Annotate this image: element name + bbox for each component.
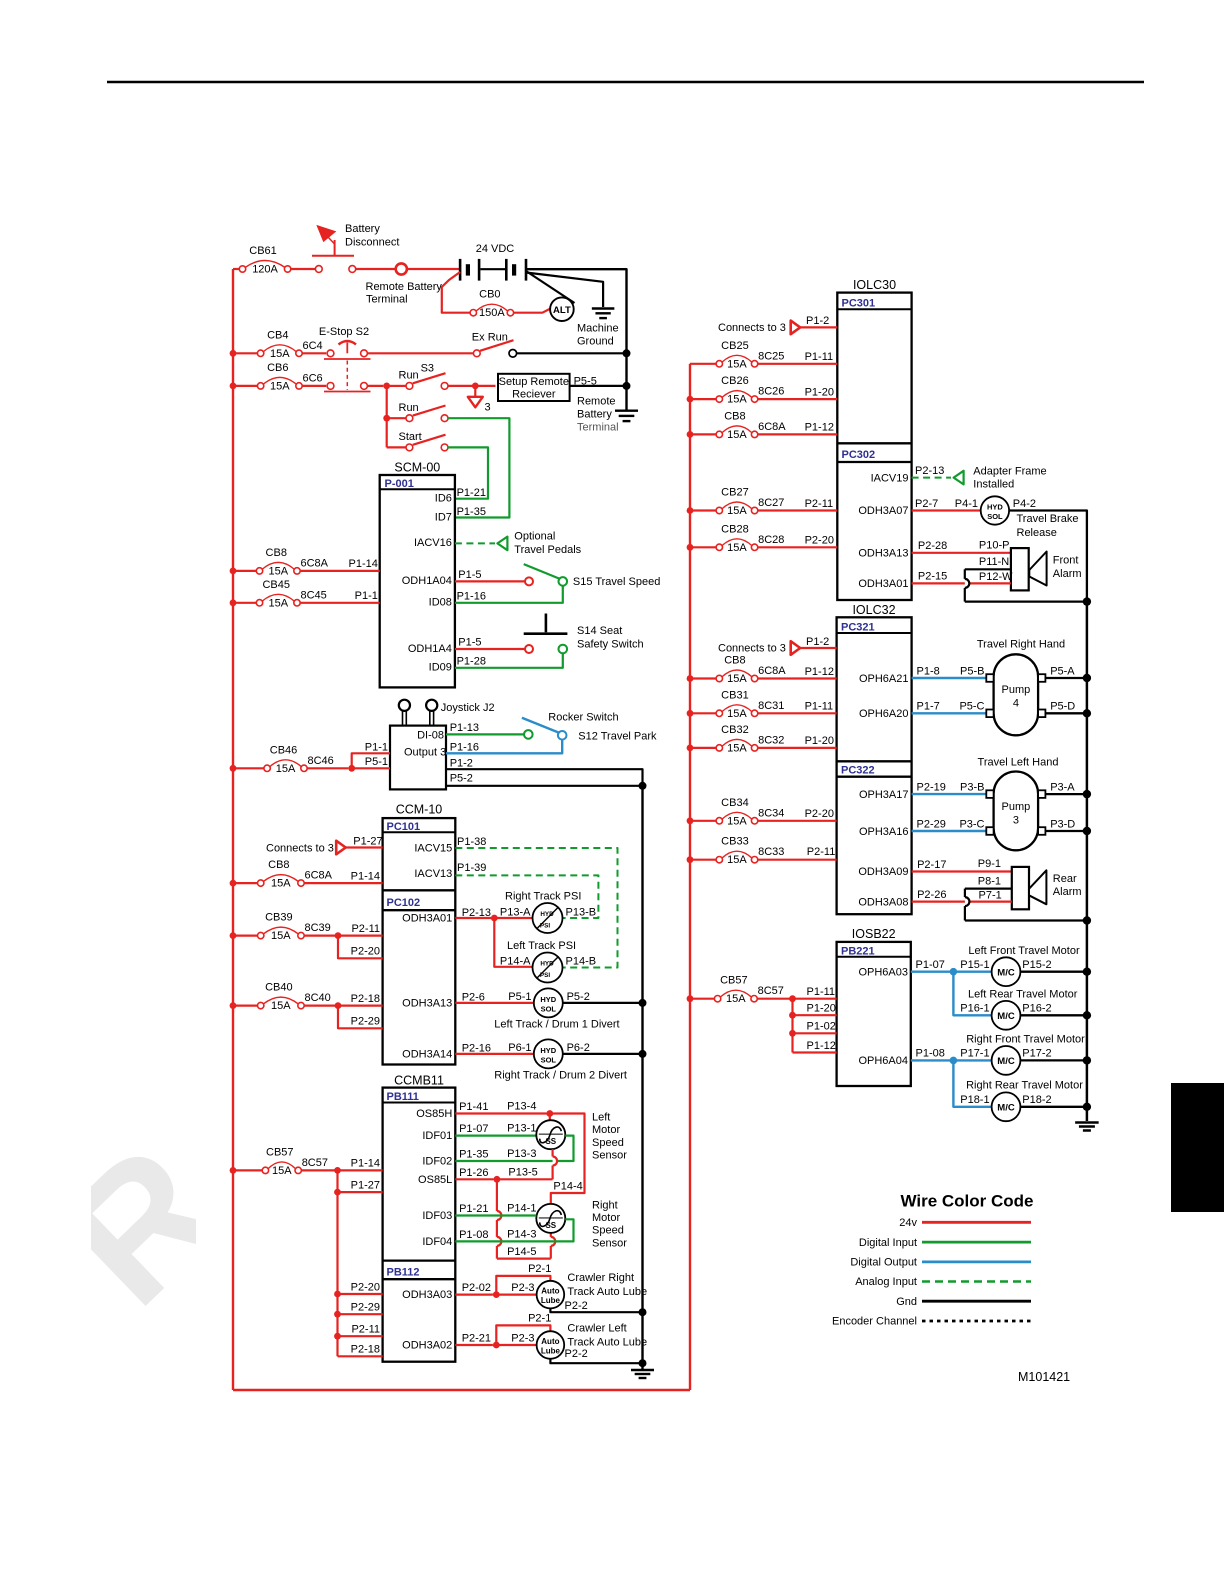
svg-text:Connects to 3: Connects to 3: [266, 843, 334, 855]
svg-text:150A: 150A: [479, 307, 505, 319]
node: [950, 1057, 958, 1065]
svg-text:ID08: ID08: [429, 597, 452, 609]
wire digital output branch: [953, 1060, 991, 1106]
wire: [1045, 677, 1087, 679]
node: [230, 932, 237, 939]
fuse CB33 15A: [716, 836, 784, 867]
wire ODH1A04: [455, 580, 525, 582]
svg-text:P2-28: P2-28: [918, 540, 947, 552]
fuse CB45 15A: [256, 579, 326, 610]
svg-text:Pump: Pump: [1002, 684, 1031, 696]
svg-text:P5-C: P5-C: [959, 701, 984, 713]
fuse CB32 15A: [716, 724, 784, 755]
svg-text:Battery: Battery: [577, 409, 612, 421]
svg-text:P5-B: P5-B: [960, 665, 984, 677]
wire: [352, 753, 390, 768]
svg-text:CB8: CB8: [266, 547, 287, 559]
node: [230, 1167, 237, 1174]
svg-text:CB8: CB8: [268, 859, 289, 871]
node: [1083, 674, 1091, 682]
svg-text:Travel Right Hand: Travel Right Hand: [977, 639, 1065, 651]
svg-text:CB46: CB46: [270, 744, 298, 756]
module IOLC32: [837, 603, 912, 914]
svg-text:P2-16: P2-16: [462, 1043, 491, 1055]
pump 3 travel left hand: [986, 772, 1045, 851]
wire: [526, 271, 575, 303]
svg-text:Analog Input: Analog Input: [855, 1276, 917, 1288]
pump 4 travel right hand: [986, 654, 1045, 735]
svg-text:P14-3: P14-3: [507, 1229, 536, 1241]
svg-text:15A: 15A: [271, 930, 291, 942]
svg-text:Wire Color Code: Wire Color Code: [900, 1192, 1033, 1211]
wire P8-1: [965, 887, 1012, 889]
wire: [690, 998, 714, 1000]
svg-text:OS85H: OS85H: [416, 1108, 452, 1120]
actuator crawler right track auto lube: [537, 1281, 565, 1309]
svg-text:8C40: 8C40: [305, 992, 331, 1004]
wire IACV15 analog dashed to P14-B: [455, 848, 617, 968]
svg-text:P2-15: P2-15: [918, 571, 947, 583]
svg-text:6C4: 6C4: [303, 340, 323, 352]
emergency stop switch S2 contact 1: [324, 341, 371, 359]
svg-text:P11-N: P11-N: [979, 556, 1009, 568]
svg-text:15A: 15A: [271, 878, 291, 890]
svg-text:P15-1: P15-1: [960, 959, 989, 971]
wire P5-2 gnd: [446, 785, 643, 787]
svg-text:P-001: P-001: [385, 478, 414, 490]
svg-text:P1-14: P1-14: [351, 870, 380, 882]
svg-text:P1-21: P1-21: [459, 1203, 488, 1215]
svg-text:CB57: CB57: [266, 1146, 294, 1158]
solenoid travel brake release: [981, 496, 1009, 524]
node: [335, 932, 342, 939]
fuse CB26 15A: [716, 375, 784, 406]
svg-text:P2-20: P2-20: [805, 535, 834, 547]
svg-text:P1-28: P1-28: [457, 655, 486, 667]
node: [789, 1030, 796, 1037]
svg-text:IACV13: IACV13: [414, 868, 452, 880]
svg-text:CB39: CB39: [265, 912, 293, 924]
fuse CB8 15A (IOLC32): [716, 655, 786, 686]
wire: [494, 918, 532, 967]
svg-text:ODH3A01: ODH3A01: [858, 578, 908, 590]
wire ODH3A03: [455, 1293, 493, 1295]
svg-text:P1-38: P1-38: [457, 836, 486, 848]
wire: [233, 268, 239, 270]
fuse CB40 15A: [258, 982, 331, 1013]
svg-text:P2-20: P2-20: [805, 808, 834, 820]
svg-text:Adapter Frame: Adapter Frame: [973, 465, 1046, 477]
svg-text:Front: Front: [1053, 555, 1079, 567]
svg-text:Installed: Installed: [973, 478, 1014, 490]
wire: [690, 677, 716, 679]
svg-text:Right Track PSI: Right Track PSI: [505, 891, 581, 903]
svg-text:Left Front Travel Motor: Left Front Travel Motor: [968, 945, 1080, 957]
svg-text:15A: 15A: [727, 394, 747, 406]
switch Start: [387, 435, 448, 451]
svg-text:8C27: 8C27: [758, 497, 784, 509]
ground machine ground: [592, 309, 615, 319]
node: [687, 507, 694, 514]
node: [348, 765, 355, 772]
svg-text:Alarm: Alarm: [1053, 886, 1082, 898]
svg-text:Safety Switch: Safety Switch: [577, 638, 644, 650]
wire: [793, 1014, 837, 1016]
actuator crawler left track auto lube: [537, 1331, 565, 1359]
svg-text:15A: 15A: [268, 597, 288, 609]
svg-text:S12 Travel Park: S12 Travel Park: [578, 731, 657, 743]
wire IACV19 analog: [912, 477, 951, 479]
svg-text:Terminal: Terminal: [366, 294, 408, 306]
svg-text:P7-1: P7-1: [979, 890, 1002, 902]
wire: [367, 385, 383, 387]
svg-text:PB111: PB111: [387, 1091, 419, 1103]
svg-text:IOSB22: IOSB22: [852, 927, 896, 941]
svg-text:Right Rear Travel Motor: Right Rear Travel Motor: [966, 1079, 1083, 1091]
node: [1083, 968, 1091, 976]
wire riser to right SS bottom: [551, 1233, 556, 1259]
svg-text:ODH3A09: ODH3A09: [858, 866, 908, 878]
svg-text:IACV19: IACV19: [871, 472, 909, 484]
wire: [793, 1032, 837, 1034]
svg-text:Rear: Rear: [1053, 873, 1077, 885]
svg-text:P1-5: P1-5: [458, 637, 481, 649]
node: [1083, 1103, 1091, 1111]
node: [687, 710, 694, 717]
svg-text:IDF03: IDF03: [422, 1210, 452, 1222]
node: [623, 382, 631, 390]
emergency stop switch S2 contact 2: [324, 361, 371, 392]
wire: [233, 352, 257, 354]
svg-text:PC301: PC301: [842, 298, 876, 310]
svg-text:IOLC32: IOLC32: [852, 603, 895, 617]
svg-text:8C28: 8C28: [758, 534, 784, 546]
node: [230, 383, 237, 390]
wire OPH3A17 P2-19 digital output: [912, 793, 987, 795]
wire ODH3A01: [455, 917, 491, 919]
svg-text:P13-A: P13-A: [500, 907, 531, 919]
svg-text:IACV15: IACV15: [414, 842, 452, 854]
wire: [526, 273, 603, 308]
sensor left motor speed SS: [536, 1120, 565, 1149]
wire: [517, 352, 627, 354]
svg-text:P1-27: P1-27: [353, 836, 382, 848]
svg-text:IOLC30: IOLC30: [853, 278, 896, 292]
node: [1083, 1056, 1091, 1064]
svg-text:Right Track / Drum 2 Divert: Right Track / Drum 2 Divert: [494, 1070, 627, 1082]
svg-text:6C8A: 6C8A: [305, 870, 333, 882]
svg-text:P18-2: P18-2: [1022, 1094, 1051, 1106]
connector triangle to sheet 3: [791, 321, 801, 335]
wire: [455, 1136, 573, 1161]
svg-text:CB4: CB4: [267, 329, 288, 341]
svg-text:Travel Pedals: Travel Pedals: [514, 544, 581, 556]
svg-text:Setup Remote: Setup Remote: [499, 376, 569, 388]
svg-text:ID09: ID09: [429, 662, 452, 674]
svg-text:P1-08: P1-08: [916, 1048, 945, 1060]
svg-text:Speed: Speed: [592, 1225, 624, 1237]
wire: [953, 971, 991, 973]
wire 24v bottom bus: [233, 1389, 690, 1391]
svg-text:P1-12: P1-12: [807, 1040, 836, 1052]
module Setup Remote Reciever: [498, 374, 570, 401]
node: [1083, 1011, 1091, 1019]
svg-text:SS: SS: [545, 1221, 556, 1230]
wire black bus to ground: [625, 352, 627, 409]
svg-text:Gnd: Gnd: [896, 1296, 917, 1308]
svg-text:P14-B: P14-B: [566, 955, 597, 967]
wire battery positive to black bus: [526, 269, 627, 352]
wire: [1045, 830, 1087, 832]
svg-text:CB8: CB8: [724, 655, 745, 667]
svg-text:P2-17: P2-17: [917, 859, 946, 871]
svg-text:P12-W: P12-W: [979, 571, 1013, 583]
svg-text:Rocker Switch: Rocker Switch: [548, 712, 618, 724]
svg-text:15A: 15A: [276, 763, 296, 775]
svg-text:P5-D: P5-D: [1050, 701, 1075, 713]
svg-text:Track Auto Lube: Track Auto Lube: [567, 1286, 647, 1298]
node: [472, 383, 479, 390]
wire gnd bus right column: [1086, 598, 1089, 1121]
wire: [563, 1053, 643, 1055]
pressure switch right track PSI: [533, 903, 563, 933]
wire rear alarm gnd loop: [965, 889, 1087, 921]
wire: [496, 1344, 536, 1346]
svg-text:P6-2: P6-2: [567, 1042, 590, 1054]
svg-text:8C45: 8C45: [301, 589, 327, 601]
wire ID08: [455, 586, 563, 603]
svg-text:P1-41: P1-41: [459, 1101, 488, 1113]
svg-text:P1-39: P1-39: [457, 862, 486, 874]
wire: [386, 386, 388, 448]
wire: [233, 602, 256, 604]
svg-text:P14-4: P14-4: [553, 1180, 582, 1192]
svg-text:P17-2: P17-2: [1022, 1048, 1051, 1060]
svg-text:8C57: 8C57: [302, 1157, 328, 1169]
svg-text:CB28: CB28: [721, 523, 749, 535]
svg-text:Machine: Machine: [577, 323, 619, 335]
node: [491, 915, 498, 922]
node: [493, 1291, 500, 1298]
svg-text:P1-5: P1-5: [458, 569, 481, 581]
wire: [233, 767, 264, 769]
svg-text:15A: 15A: [268, 565, 288, 577]
svg-text:P13-B: P13-B: [566, 907, 597, 919]
wire: [233, 1004, 258, 1006]
svg-text:P1-7: P1-7: [917, 701, 940, 713]
wire front alarm gnd loop: [965, 569, 1087, 601]
svg-text:P1-11: P1-11: [807, 986, 836, 998]
wire: [549, 1114, 551, 1121]
wire P2-2 gnd: [550, 1308, 642, 1312]
svg-text:P1-35: P1-35: [457, 506, 486, 518]
svg-text:6C8A: 6C8A: [301, 557, 329, 569]
svg-text:Reciever: Reciever: [512, 389, 556, 401]
svg-text:15A: 15A: [727, 673, 747, 685]
fuse CB61 120A: [239, 245, 290, 276]
svg-text:HYD: HYD: [540, 911, 554, 918]
speaker rear alarm: [1012, 867, 1047, 909]
svg-text:CB26: CB26: [721, 375, 749, 387]
svg-text:Motor: Motor: [592, 1212, 620, 1224]
solenoid right track drum2 divert: [534, 1039, 563, 1068]
svg-text:Speed: Speed: [592, 1137, 624, 1149]
svg-text:P15-2: P15-2: [1022, 959, 1051, 971]
svg-text:SOL: SOL: [541, 1055, 557, 1064]
node: [687, 544, 694, 551]
wire: [494, 917, 532, 919]
svg-text:HYD: HYD: [987, 503, 1003, 512]
wire 24v right bus: [689, 364, 691, 1390]
svg-text:P1-8: P1-8: [917, 665, 940, 677]
svg-text:Track Auto Lube: Track Auto Lube: [567, 1337, 647, 1349]
module SCM-00: [380, 461, 455, 688]
svg-text:PB221: PB221: [841, 945, 875, 957]
svg-text:P1-11: P1-11: [805, 701, 834, 713]
module IOLC30: [837, 278, 911, 600]
svg-text:ODH3A01: ODH3A01: [402, 913, 452, 925]
svg-text:8C57: 8C57: [758, 985, 784, 997]
svg-text:P17-1: P17-1: [960, 1048, 989, 1060]
node: [639, 1308, 647, 1316]
switch S3 Run: [390, 373, 448, 389]
svg-text:Run: Run: [399, 370, 419, 382]
svg-text:P2-02: P2-02: [462, 1282, 491, 1294]
svg-text:P1-07: P1-07: [916, 959, 945, 971]
svg-text:P2-11: P2-11: [807, 846, 836, 858]
svg-text:15A: 15A: [727, 854, 747, 866]
svg-text:M/C: M/C: [997, 967, 1015, 978]
svg-text:P14-1: P14-1: [507, 1203, 536, 1215]
wire: [233, 1169, 262, 1171]
switch Ex Run: [473, 340, 516, 357]
connector triangle 3: [468, 389, 483, 407]
svg-text:ODH1A4: ODH1A4: [408, 643, 452, 655]
svg-text:3: 3: [1013, 815, 1019, 827]
fuse CB57 15A (IOSB): [714, 975, 783, 1006]
svg-text:P2-6: P2-6: [462, 992, 485, 1004]
svg-text:15A: 15A: [271, 1000, 291, 1012]
wire IACV16 analog input: [455, 542, 495, 544]
wire ODH3A01 P2-15 P12-W: [912, 582, 1011, 584]
svg-text:P1-13: P1-13: [450, 722, 479, 734]
ground left column: [631, 1370, 654, 1378]
svg-text:HYD: HYD: [540, 961, 554, 968]
switch S14 seat safety: [524, 614, 568, 654]
node: [335, 1002, 342, 1009]
wire branch: [791, 999, 793, 1053]
svg-text:P13-3: P13-3: [507, 1148, 536, 1160]
motor controller right rear M/C: [992, 1092, 1021, 1121]
svg-text:CB8: CB8: [724, 410, 745, 422]
svg-text:Ex Run: Ex Run: [472, 332, 508, 344]
svg-text:Remote Battery: Remote Battery: [366, 281, 443, 293]
svg-text:6C6: 6C6: [303, 372, 323, 384]
wire: [1045, 793, 1087, 795]
svg-text:Left Track / Drum 1 Divert: Left Track / Drum 1 Divert: [494, 1019, 619, 1031]
node: [1083, 916, 1091, 924]
wire: [448, 385, 496, 387]
switch S15 Travel Speed: [524, 564, 567, 586]
svg-text:P2-2: P2-2: [565, 1348, 588, 1360]
svg-text:P1-16: P1-16: [450, 741, 479, 753]
svg-text:ODH3A13: ODH3A13: [402, 998, 452, 1010]
svg-text:DI-08: DI-08: [417, 729, 444, 741]
svg-text:CB32: CB32: [721, 724, 749, 736]
svg-text:P5-1: P5-1: [365, 756, 388, 768]
wire ODH3A13 P2-28: [912, 552, 1011, 554]
node: [334, 1189, 341, 1196]
svg-text:Terminal: Terminal: [577, 422, 619, 434]
svg-text:Left Rear Travel Motor: Left Rear Travel Motor: [968, 988, 1078, 1000]
svg-text:24 VDC: 24 VDC: [476, 243, 515, 255]
svg-text:CB61: CB61: [249, 245, 277, 257]
svg-text:P2-11: P2-11: [351, 923, 380, 935]
svg-text:P2-18: P2-18: [351, 1344, 380, 1356]
svg-text:Sensor: Sensor: [592, 1237, 627, 1249]
svg-text:P2-2: P2-2: [565, 1300, 588, 1312]
svg-text:8C25: 8C25: [758, 350, 784, 362]
svg-text:P16-1: P16-1: [960, 1003, 989, 1015]
wire IDF01 P13-1: [455, 1134, 536, 1136]
svg-text:120A: 120A: [252, 264, 278, 276]
wire run contact to ID7: [448, 418, 509, 517]
svg-text:PC322: PC322: [841, 764, 875, 776]
fuse CB31 15A: [716, 689, 784, 720]
wire: [690, 820, 716, 822]
svg-text:15A: 15A: [727, 358, 747, 370]
svg-text:P16-2: P16-2: [1022, 1003, 1051, 1015]
svg-text:OPH3A16: OPH3A16: [859, 826, 909, 838]
svg-text:P13-5: P13-5: [508, 1167, 537, 1179]
svg-text:P2-7: P2-7: [915, 498, 938, 510]
svg-text:P9-1: P9-1: [978, 858, 1001, 870]
wire ODH3A13: [455, 1002, 534, 1004]
svg-text:Auto: Auto: [541, 1287, 559, 1296]
wire: [1020, 1014, 1087, 1016]
svg-text:ODH3A07: ODH3A07: [858, 505, 908, 517]
svg-text:SS: SS: [545, 1137, 556, 1146]
svg-text:8C33: 8C33: [758, 846, 784, 858]
svg-text:OPH6A21: OPH6A21: [859, 673, 909, 685]
svg-text:P1-02: P1-02: [807, 1021, 836, 1033]
svg-text:CB34: CB34: [721, 797, 749, 809]
svg-text:Left: Left: [592, 1112, 610, 1124]
svg-text:P2-1: P2-1: [528, 1313, 551, 1325]
node: [639, 782, 647, 790]
module IOSB22: [837, 927, 911, 1086]
svg-text:IDF04: IDF04: [422, 1236, 452, 1248]
svg-text:OPH3A17: OPH3A17: [859, 789, 909, 801]
svg-text:ODH3A02: ODH3A02: [402, 1340, 452, 1352]
wire: [338, 1335, 383, 1337]
svg-text:P2-3: P2-3: [511, 1332, 534, 1344]
wire: [953, 1059, 991, 1061]
svg-text:M/C: M/C: [997, 1103, 1015, 1114]
svg-text:Left Track PSI: Left Track PSI: [507, 940, 576, 952]
svg-text:P6-1: P6-1: [508, 1042, 531, 1054]
fuse CB27 15A: [716, 487, 784, 518]
svg-text:8C34: 8C34: [758, 807, 784, 819]
connector triangle optional travel pedals: [497, 537, 507, 551]
wire: [690, 433, 716, 435]
wire: [233, 385, 257, 387]
switch Run 2: [387, 406, 448, 422]
svg-text:M/C: M/C: [997, 1011, 1015, 1022]
node: [950, 968, 958, 976]
svg-text:P1-2: P1-2: [806, 636, 829, 648]
node: [334, 1333, 341, 1340]
